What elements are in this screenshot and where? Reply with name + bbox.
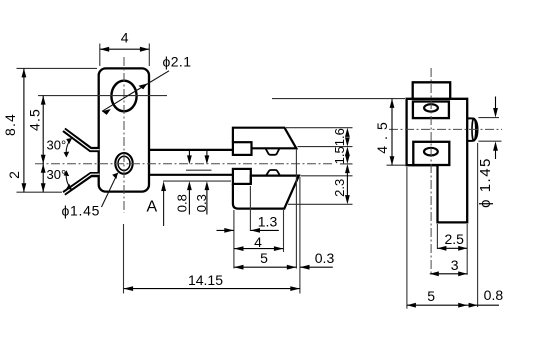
lead pin lower (64, 175, 100, 194)
inner thin line (slot) (186, 169, 212, 171)
side body outline (407, 99, 468, 223)
arm bottom edge (149, 174, 233, 176)
dimension 4 (top width) (99, 44, 101, 67)
svg-text:4: 4 (254, 234, 262, 250)
dimension 0.3 arrows (206, 151, 208, 157)
svg-text:ϕ2.1: ϕ2.1 (163, 54, 192, 70)
dimension 4.5 (side) (387, 164, 407, 166)
side vertical centerline (430, 68, 432, 275)
svg-text:2.3: 2.3 (332, 179, 347, 197)
svg-text:4.5: 4.5 (374, 116, 390, 153)
lower jaw outline (233, 176, 299, 209)
extension verticals below jaws (233, 210, 235, 269)
svg-text:0.8: 0.8 (484, 287, 504, 303)
angle arc upper 30deg (66, 139, 71, 157)
dimension 5 (jaw) (234, 266, 297, 268)
dimension 8.4 (left overall height) (17, 67, 98, 69)
svg-text:1.3: 1.3 (258, 214, 278, 230)
dimension 3 (430, 273, 467, 275)
lead pin upper (64, 130, 100, 150)
body outline (front view housing) (99, 68, 149, 191)
horizontal centerline of big hole (38, 95, 167, 97)
dimension 2 (left bottom) (42, 164, 44, 192)
dimension 0.3 (jaw offset) (300, 266, 333, 268)
svg-text:0.8: 0.8 (174, 194, 189, 212)
side horizontal centerline (389, 128, 502, 130)
hole window lower (413, 142, 449, 165)
svg-text:2.5: 2.5 (444, 231, 464, 247)
svg-text:0.3: 0.3 (194, 194, 209, 212)
dimension 0.8 arrows (188, 151, 190, 157)
dimension 14.15 (124, 288, 300, 290)
dimension phi1.45 (side boss) (478, 117, 499, 119)
svg-text:0.3: 0.3 (315, 250, 335, 266)
hole phi2.1 (big ellipse) (111, 81, 136, 112)
projection line to side view (272, 98, 405, 100)
svg-text:4: 4 (121, 30, 129, 46)
svg-text:ϕ1.45: ϕ1.45 (62, 203, 101, 219)
svg-text:30°: 30° (47, 137, 67, 152)
dimension 1.5 (right stack) (345, 147, 350, 156)
lower jaw tab (233, 169, 251, 184)
hole window upper (413, 102, 449, 119)
dimension 4.5 (left, hole spacing) (42, 96, 44, 164)
arm top edge (149, 149, 233, 151)
hole ellipse lower (424, 148, 438, 156)
upper jaw outline (233, 128, 296, 149)
extension lines right of jaws (286, 127, 353, 129)
vertical centerline of housing (123, 57, 125, 213)
side boss end face lens (472, 118, 476, 140)
svg-text:5: 5 (260, 250, 268, 266)
dimension 2.5 (stem) (436, 224, 438, 249)
hole ellipse upper (424, 104, 438, 111)
svg-text:1.6: 1.6 (332, 128, 347, 146)
dimension 0.8 (side) (477, 143, 479, 307)
svg-text:3: 3 (451, 257, 459, 273)
svg-text:1.5: 1.5 (332, 146, 347, 164)
svg-text:ϕ 1.45: ϕ 1.45 (477, 157, 494, 208)
hole phi1.45 inner ring (118, 156, 130, 170)
hole phi1.45 outer ring (115, 153, 132, 174)
main horizontal axis (35, 163, 333, 165)
svg-text:8.4: 8.4 (2, 113, 18, 136)
upper jaw tab (233, 142, 252, 155)
svg-text:14.15: 14.15 (188, 272, 223, 288)
dimension 1.6 (right stack) (345, 128, 350, 137)
inner thin line (lower ledge) (163, 180, 231, 182)
svg-text:2: 2 (6, 171, 22, 179)
dimension 2.3 (right stack) (345, 164, 350, 173)
lower jaw bump (266, 170, 280, 176)
side boss phi1.45 cylinder (467, 118, 477, 140)
top tab (413, 82, 451, 99)
dimension 4 (jaw) (234, 248, 284, 250)
dimension 1.3 (217, 229, 234, 231)
dimension 5 (side) (406, 167, 408, 309)
upper jaw bump (266, 148, 280, 155)
svg-text:A: A (147, 199, 158, 216)
svg-text:4.5: 4.5 (27, 108, 43, 131)
angle arc lower 30deg (66, 171, 71, 189)
svg-text:30°: 30° (47, 167, 67, 182)
svg-text:5: 5 (427, 288, 435, 304)
